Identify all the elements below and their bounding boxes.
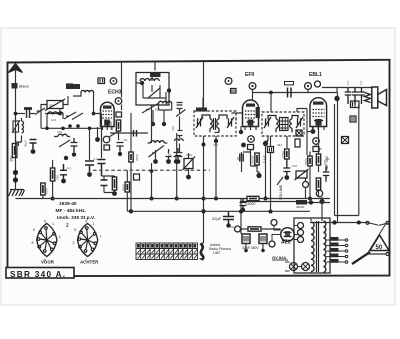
svg-text:AZ1: AZ1: [281, 240, 291, 246]
coupling capacitor top: [288, 88, 292, 98]
cap 50uF left: [30, 140, 37, 150]
HT resistor: [296, 200, 307, 205]
pin box x231: [231, 89, 237, 94]
secondary rail: [127, 210, 310, 212]
pilot lamp 2: [302, 263, 310, 271]
antenna arrow: [9, 64, 23, 73]
IFT2 shield box: [262, 112, 304, 136]
svg-text:ECH3: ECH3: [108, 90, 122, 96]
svg-text:484: 484: [213, 143, 218, 147]
junction dot antenna: [14, 112, 18, 116]
resistor vertical x52: [50, 168, 54, 181]
resistor x310: [308, 156, 312, 166]
circled pin beside EBL1: [315, 81, 321, 87]
svg-text:7: 7: [100, 235, 102, 239]
osc mid varcaps: [142, 103, 159, 113]
variable cap with arrow: [184, 159, 193, 169]
tap terminals: [345, 239, 348, 242]
tuning gang dashed link: [93, 169, 210, 171]
cathode RC pair: [102, 176, 115, 194]
AVC vertical x203: [203, 62, 205, 244]
value labels: [24, 80, 364, 263]
IFT1 trimmer right: [227, 117, 234, 128]
filter resistor: [248, 227, 261, 231]
wire to RF coil: [45, 113, 60, 115]
cathode resistor group x50: [52, 160, 54, 168]
electrolytic block 2: [259, 234, 267, 244]
RF coil secondary 100: [48, 112, 64, 115]
lower band coil: [58, 134, 67, 136]
cap x101: [98, 160, 106, 177]
IFT2 core hatched: [280, 118, 289, 131]
EF9 electrode dark: [248, 120, 254, 126]
svg-text:15: 15: [196, 117, 200, 121]
padder box on dial line: [134, 174, 140, 180]
table header marks: [137, 244, 196, 248]
IFT2 coil left: [268, 116, 278, 133]
tube ECH3 envelope: [101, 102, 115, 126]
circled pin filter: [235, 226, 241, 232]
antenna lead wire: [15, 65, 17, 114]
band switch lower: [59, 140, 70, 147]
EF9 cathode components: [242, 150, 251, 167]
wire to band switch: [30, 113, 36, 115]
svg-text:303: 303: [49, 104, 54, 108]
svg-text:160: 160: [331, 248, 336, 252]
svg-text:25000: 25000: [251, 155, 255, 164]
svg-text:8: 8: [32, 241, 34, 245]
wave switch contacts: [64, 112, 83, 120]
osc vertical feeds: [152, 105, 177, 199]
svg-text:100: 100: [155, 108, 160, 112]
output transformer winding: [365, 93, 371, 103]
right vertical feeds: [335, 93, 359, 223]
main rail y128: [41, 127, 102, 129]
junction dot RF: [92, 112, 96, 116]
EBL1 plate junction dot: [334, 96, 339, 101]
IFT2 coil right: [290, 116, 298, 133]
output top rail: [322, 88, 372, 93]
svg-text:2: 2: [73, 241, 75, 245]
mains rail: [310, 223, 388, 226]
trimmer cap left: [13, 121, 19, 132]
svg-text:50µF: 50µF: [24, 140, 28, 147]
svg-text:7K: 7K: [326, 157, 330, 161]
svg-text:MF - 484 kHz.: MF - 484 kHz.: [56, 208, 86, 214]
grid feed vertical from frame: [121, 62, 123, 111]
triangle warning 50: [370, 235, 389, 251]
EBL1 under-tube parts: [311, 129, 316, 134]
transformer core: [317, 221, 319, 272]
svg-text:100: 100: [57, 130, 62, 134]
tap labels: [330, 237, 339, 263]
circled pin AZ1 a: [271, 220, 277, 226]
svg-text:125: 125: [331, 254, 336, 258]
cap x120: [117, 143, 124, 152]
svg-text:0,1: 0,1: [346, 80, 350, 85]
osc grid line y133: [110, 132, 148, 134]
main ground rail: [16, 198, 331, 200]
AZ1 wires: [272, 226, 298, 242]
svg-text:250: 250: [10, 156, 14, 162]
coupling line top: [253, 89, 338, 92]
RF section wires: [41, 84, 94, 128]
wire antenna input horizontal: [16, 113, 26, 115]
osc dots: [151, 122, 155, 126]
grid cap ECH3: [115, 98, 122, 105]
padder cap lower: [71, 138, 78, 152]
capacitor antenna series: [27, 110, 30, 119]
svg-text:0,1: 0,1: [94, 157, 99, 161]
phonola logo mark: [201, 244, 204, 260]
svg-text:0,1: 0,1: [67, 166, 72, 170]
svg-text:1: 1: [93, 222, 95, 226]
osc shield box: [136, 73, 169, 106]
circled pin below pot: [303, 182, 309, 188]
svg-text:2500: 2500: [135, 154, 139, 161]
verticals x126 x131.5: [127, 113, 131, 211]
svg-text:1487: 1487: [213, 251, 221, 255]
mains switch contacts: [366, 221, 369, 224]
svg-text:220: 220: [331, 237, 336, 241]
ECH3 electrode dark: [104, 120, 110, 126]
antenna coil small: [22, 121, 24, 133]
tube EBL1 envelope: [310, 98, 327, 127]
svg-text:15: 15: [299, 117, 303, 121]
tone capacitor 2: [352, 88, 358, 105]
cap x241: [240, 154, 243, 162]
osc box interior: [143, 75, 166, 105]
voltage selector plug: [352, 252, 370, 264]
svg-text:5000: 5000: [304, 158, 308, 165]
pin box above ECH3: [98, 78, 105, 84]
junction dot right of osc box: [167, 88, 171, 92]
band switch contact: [35, 108, 45, 115]
tube AZ1: [281, 228, 295, 242]
svg-text:1: 1: [52, 222, 54, 226]
cap x89: [89, 128, 91, 160]
svg-text:200: 200: [331, 243, 336, 247]
transformer secondary winding: [324, 221, 326, 272]
svg-text:4: 4: [33, 228, 35, 232]
bypass cap x63: [60, 164, 67, 179]
svg-text:HP: HP: [318, 147, 322, 151]
HT rail: [240, 197, 330, 221]
svg-text:GV 84A: GV 84A: [272, 255, 286, 260]
EBL1 left column boxes: [296, 130, 302, 136]
switch dots: [68, 124, 72, 128]
junction dot left of osc box: [140, 81, 144, 85]
lamp wires: [285, 262, 302, 271]
pilot lamp 1: [290, 263, 298, 271]
osc feed from frame: [154, 62, 156, 71]
tone capacitor 3: [358, 88, 364, 105]
resistor x318 lower: [316, 178, 320, 190]
svg-text:1939-40: 1939-40: [59, 201, 77, 207]
left mid cap: [73, 141, 79, 143]
resistor x126: [125, 182, 129, 192]
svg-text:0,5M: 0,5M: [281, 151, 285, 158]
IFT1 label box: [196, 108, 207, 112]
EBL1 bias line down: [270, 92, 272, 94]
transformer primary winding: [311, 222, 314, 272]
junction mains: [332, 220, 336, 224]
EF9 plate resistor right: [256, 107, 260, 118]
variable cap 303: [47, 101, 63, 109]
cap x326: [323, 166, 330, 180]
coupling caps column x179: [174, 103, 186, 162]
svg-text:15: 15: [264, 117, 268, 121]
left rail down: [15, 114, 17, 190]
svg-text:3-30: 3-30: [186, 153, 192, 157]
power transformer box: [294, 218, 330, 273]
pin box x118: [116, 112, 122, 117]
inline resistor on rail: [247, 196, 259, 200]
circled pin near x225: [225, 78, 232, 85]
svg-text:5000: 5000: [122, 184, 126, 191]
RF coil primary: [81, 90, 94, 92]
osc coil 100: [159, 101, 172, 103]
svg-text:SBR 340 A.: SBR 340 A.: [10, 270, 66, 279]
table cell marks: [138, 250, 197, 259]
coil label box: [66, 84, 80, 89]
resistor x257: [255, 153, 259, 165]
ECH3 base dot: [95, 137, 100, 142]
antenna trimmer branch: [12, 118, 24, 146]
label bruin: [24, 107, 32, 110]
osc label box: [150, 73, 161, 78]
svg-text:7: 7: [85, 258, 87, 262]
svg-text:100: 100: [171, 126, 175, 131]
tone box: [351, 101, 360, 108]
svg-text:250: 250: [56, 175, 60, 180]
svg-text:50: 50: [124, 138, 128, 142]
svg-text:0,1µF: 0,1µF: [262, 155, 266, 163]
circled pin EBL1: [313, 138, 320, 145]
IFT2 trimmer left: [264, 117, 271, 128]
dial table: [136, 243, 198, 260]
tone pot: [296, 171, 307, 178]
IFT1 shield box: [194, 111, 236, 136]
svg-text:45000: 45000: [296, 205, 305, 209]
IFT1 trimmer left: [196, 117, 203, 128]
svg-text:100: 100: [51, 118, 56, 122]
cap under rail x243: [240, 199, 247, 209]
title box SBR 340 A: [6, 268, 74, 279]
svg-text:484: 484: [277, 143, 282, 147]
svg-text:50µF: 50µF: [230, 225, 237, 229]
cap on y133: [134, 130, 137, 137]
svg-text:7000: 7000: [45, 188, 49, 195]
svg-text:50: 50: [236, 156, 240, 160]
svg-text:EF9: EF9: [245, 72, 254, 78]
svg-text:VOLUME: VOLUME: [279, 184, 283, 200]
tube EF9 envelope: [243, 100, 259, 127]
circled pin EF9: [248, 136, 255, 143]
filter cap 32uF: [223, 212, 234, 225]
resistor in RC: [112, 177, 116, 190]
pin box EBL1: [313, 147, 319, 152]
IFT1 core: [214, 118, 216, 130]
resistor x318.5: [316, 154, 320, 165]
pin box x270: [268, 147, 274, 153]
electrolytic block 1: [242, 234, 250, 244]
detector resistor x287: [285, 149, 289, 159]
EBL1 wires: [306, 127, 327, 199]
junction dots left rail: [13, 170, 18, 175]
osc coil lower: [151, 141, 165, 143]
schematic frame border: [8, 60, 390, 276]
svg-text:32µF: 32µF: [212, 216, 222, 221]
EBL1 top cap: [305, 83, 312, 90]
resistor x131.5: [129, 152, 133, 162]
EBL1 electrode dark: [315, 119, 321, 126]
IFT1 coil right: [217, 115, 227, 132]
svg-text:0,1: 0,1: [359, 80, 363, 85]
circled test point: [316, 190, 322, 196]
cap below x287: [283, 159, 290, 175]
circled pin 1: [103, 136, 110, 143]
svg-text:15: 15: [168, 153, 172, 157]
IFT1 coil left: [202, 115, 212, 132]
secondary taps: [327, 240, 346, 262]
svg-text:50: 50: [376, 245, 383, 251]
svg-text:ACHTER: ACHTER: [80, 260, 99, 265]
circled pin above ECH3: [110, 78, 117, 85]
resistor vertical x41: [41, 183, 45, 195]
IFT2 trimmer right: [296, 117, 303, 128]
svg-text:Blauw: Blauw: [19, 85, 29, 89]
circled pins right of AZ1: [298, 223, 304, 229]
primary top wire: [310, 218, 312, 273]
osc varcap lower: [149, 146, 165, 158]
svg-text:30000: 30000: [109, 121, 113, 130]
svg-text:110: 110: [331, 259, 336, 263]
pin box x353: [350, 116, 356, 122]
svg-text:15: 15: [234, 117, 238, 121]
antenna plug box: [12, 83, 18, 89]
svg-text:5: 5: [74, 228, 76, 232]
pin box EF9: [248, 145, 254, 150]
IFT2 wires: [268, 109, 307, 156]
resistor 250ohm left: [12, 144, 17, 158]
socket ACHTER: [78, 224, 98, 257]
svg-text:6: 6: [44, 258, 46, 262]
pin box below: [104, 145, 110, 150]
svg-text:4: 4: [85, 220, 87, 224]
osc coil top: [140, 79, 159, 81]
IFT1 wires: [203, 98, 243, 142]
svg-text:Imoh. 335 St.p.V.: Imoh. 335 St.p.V.: [57, 215, 95, 221]
volume pot arrow: [277, 177, 283, 185]
speaker: [372, 87, 378, 108]
circled pin AZ1 b: [269, 241, 275, 247]
field coil box: [342, 137, 349, 144]
svg-text:5: 5: [44, 220, 46, 224]
ground symbol: [9, 190, 25, 197]
EF9 top cap: [249, 83, 256, 90]
svg-text:Z: Z: [66, 223, 69, 228]
tone capacitor 1: [345, 88, 351, 105]
svg-text:EBL1: EBL1: [309, 72, 322, 78]
svg-text:100: 100: [292, 164, 297, 168]
resistor x118: [116, 120, 120, 131]
svg-text:15000: 15000: [246, 202, 256, 206]
socket VOOR: [37, 224, 57, 257]
ECH3 cathode chain: [94, 114, 102, 159]
svg-text:3: 3: [59, 235, 61, 239]
cap in RC: [101, 180, 108, 186]
